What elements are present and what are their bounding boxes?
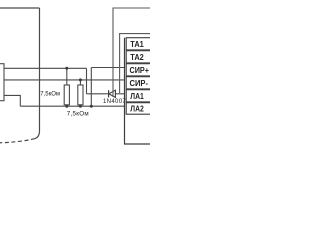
diode cathode bar: [108, 90, 110, 97]
wire vertical x=39.5 with curved lower end: [35, 8, 40, 139]
svg-text:ТА1: ТА1: [130, 39, 144, 49]
right device outer box (left edge fades below diode label): [113, 8, 151, 97]
terminal cell TA1: [126, 38, 152, 50]
wire A vertical drop to diode line: [86, 68, 88, 94]
wire C: left box pin 3 with step down: [4, 95, 20, 106]
terminal cell LA2: [126, 103, 152, 115]
SIR+ wire: corner at x=91.3 to SIR+ terminal: [91, 67, 125, 69]
terminal cell LA1: [126, 90, 152, 102]
left device box (cut off at left edge): [0, 64, 4, 101]
SIR+ vertical drop to bottom rail: [90, 68, 92, 107]
terminal cell SIR-: [126, 77, 152, 89]
resistor R2 7.5k: [79, 80, 81, 85]
svg-text:1N4007: 1N4007: [103, 99, 126, 105]
wire A: left box pin 1 to corner at x=86.5: [4, 67, 87, 69]
resistor R1 7.5k: [66, 68, 68, 85]
diode triangle (points left): [109, 90, 116, 97]
dashed cable continuation to bottom left: [0, 139, 35, 143]
terminal strip column: [125, 38, 152, 144]
terminal cell SIR+: [126, 64, 152, 76]
svg-text:ТА2: ТА2: [130, 52, 144, 62]
svg-text:ЛА1: ЛА1: [130, 91, 144, 101]
svg-text:СИР+: СИР+: [130, 65, 150, 75]
junction on rail: [90, 105, 93, 108]
wire top: from left edge to corner: [0, 7, 40, 9]
svg-text:ЛА2: ЛА2: [130, 104, 144, 114]
inner outline box: [120, 34, 151, 93]
bottom rail to LA2 terminal: [20, 105, 125, 107]
diode VD1 1N4007 wire: [87, 93, 105, 95]
svg-text:СИР-: СИР-: [130, 78, 149, 88]
svg-text:7,5кОм: 7,5кОм: [40, 91, 60, 97]
terminal cell TA2: [126, 51, 152, 63]
wire B: left box pin 2 to SIR- terminal: [4, 79, 125, 81]
svg-text:7,5кОм: 7,5кОм: [67, 111, 89, 118]
